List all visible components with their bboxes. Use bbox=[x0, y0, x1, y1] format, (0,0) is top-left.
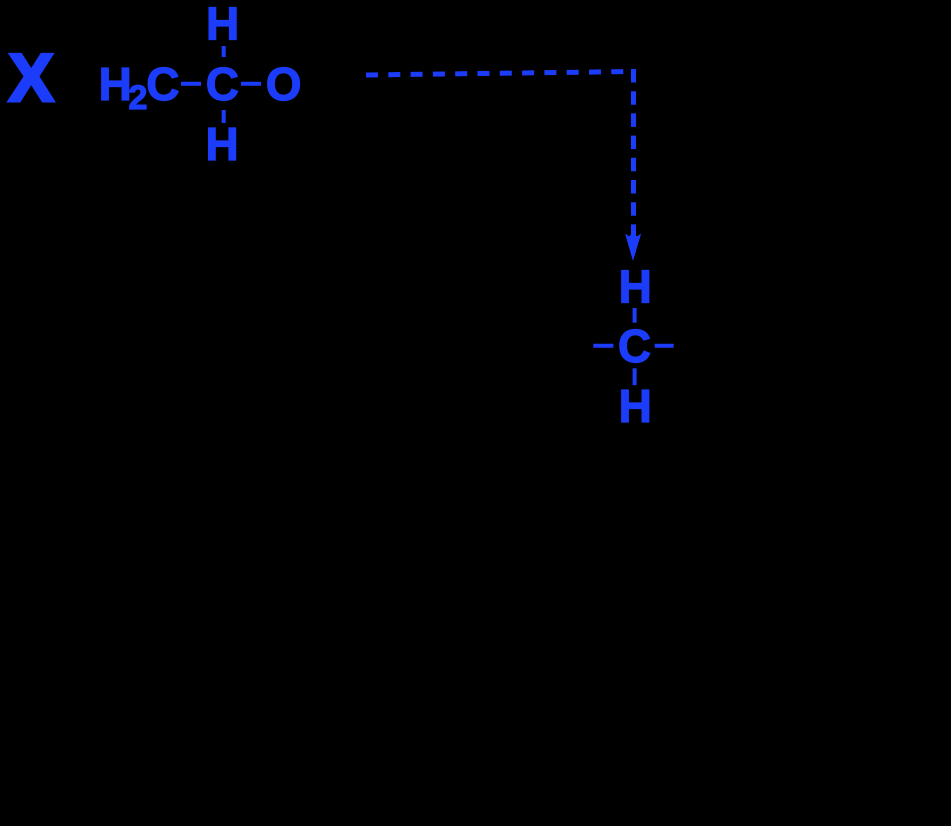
bond C-H top bbox=[222, 46, 226, 57]
bond C-H lower bbox=[633, 368, 637, 385]
svg-text:H: H bbox=[206, 118, 239, 170]
svg-text:C: C bbox=[146, 58, 179, 110]
svg-text:H: H bbox=[206, 0, 239, 50]
bond stub right bbox=[655, 344, 674, 348]
atom H2C bbox=[99, 58, 180, 117]
bond C-H upper bbox=[633, 308, 637, 323]
dashed arrow shaft vertical bbox=[631, 69, 636, 236]
svg-text:H: H bbox=[619, 261, 652, 313]
bond stub left bbox=[593, 344, 613, 348]
svg-text:C: C bbox=[206, 58, 239, 110]
dashed arrow shaft horizontal bbox=[366, 72, 635, 76]
bond C-O bbox=[241, 82, 261, 86]
svg-text:O: O bbox=[266, 58, 302, 110]
svg-text:C: C bbox=[618, 320, 651, 372]
bond C-H bottom bbox=[222, 110, 226, 123]
svg-text:H: H bbox=[99, 58, 132, 110]
bond C-C bbox=[181, 82, 201, 86]
arrowhead bbox=[625, 232, 641, 262]
svg-text:H: H bbox=[619, 380, 652, 432]
svg-text:2: 2 bbox=[129, 79, 148, 117]
svg-text:X: X bbox=[9, 40, 54, 116]
